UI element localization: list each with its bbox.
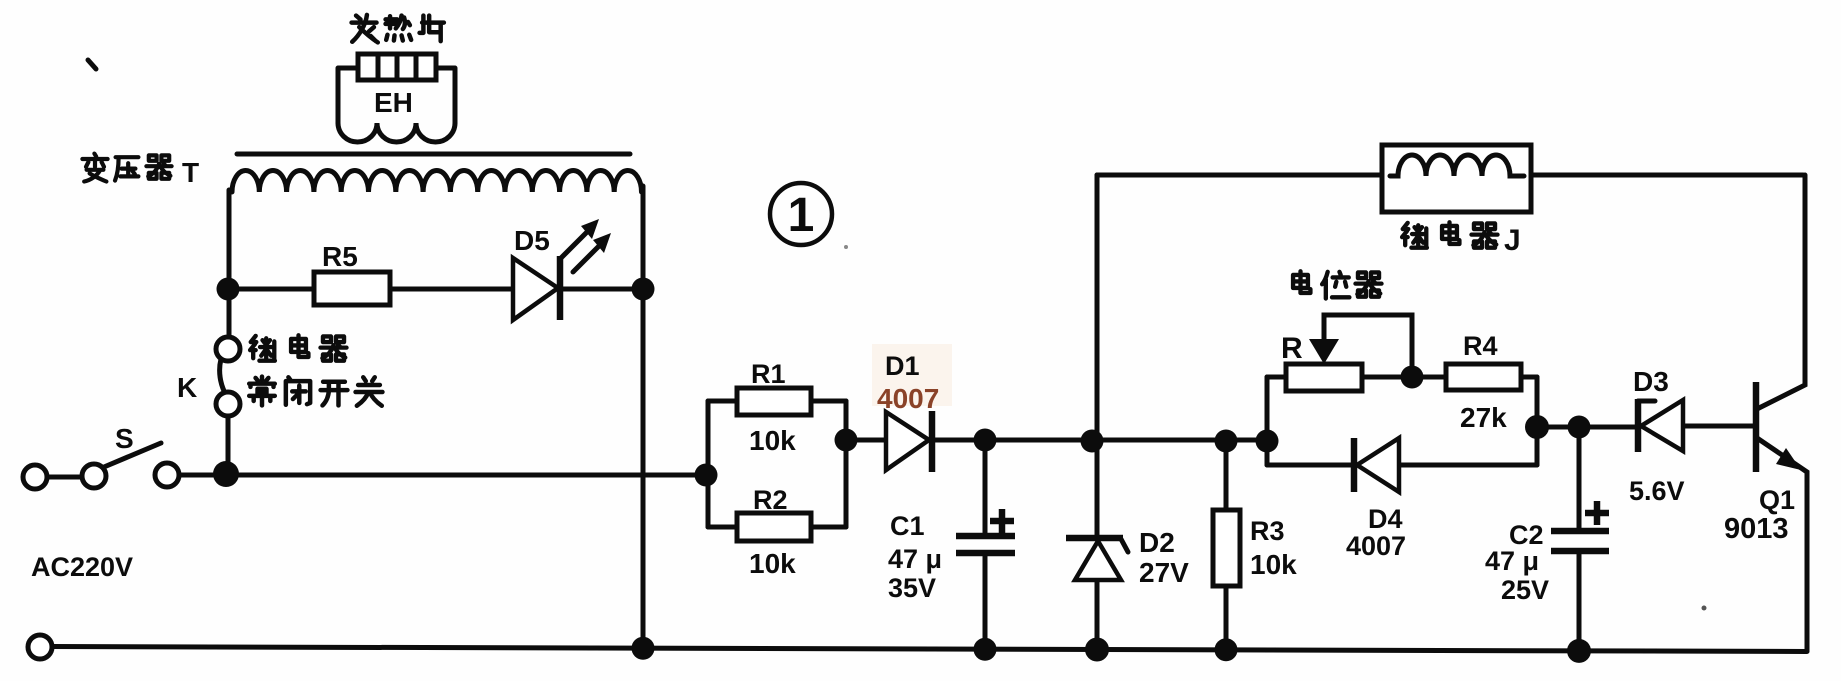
svg-text:C1: C1 [890, 511, 925, 541]
svg-text:1: 1 [788, 189, 815, 242]
svg-text:S: S [115, 423, 134, 454]
svg-text:D5: D5 [514, 225, 550, 256]
svg-text:47 μ: 47 μ [1485, 546, 1539, 576]
svg-text:R5: R5 [322, 241, 358, 272]
svg-text:EH: EH [374, 87, 413, 118]
svg-text:AC220V: AC220V [31, 552, 133, 582]
svg-text:4007: 4007 [877, 383, 939, 414]
svg-text:R4: R4 [1463, 331, 1498, 361]
svg-text:D4: D4 [1368, 504, 1403, 534]
svg-text:25V: 25V [1501, 575, 1549, 605]
svg-text:35V: 35V [888, 573, 936, 603]
svg-text:10k: 10k [749, 548, 796, 579]
svg-text:4007: 4007 [1346, 531, 1406, 561]
svg-text:D1: D1 [885, 351, 920, 381]
svg-text:R3: R3 [1250, 516, 1285, 546]
svg-text:R2: R2 [753, 485, 788, 515]
svg-text:27k: 27k [1460, 402, 1507, 433]
svg-text:D2: D2 [1139, 527, 1175, 558]
svg-text:10k: 10k [1250, 549, 1297, 580]
svg-text:K: K [177, 372, 197, 403]
svg-text:27V: 27V [1139, 557, 1189, 588]
svg-text:R1: R1 [751, 359, 786, 389]
svg-text:D3: D3 [1633, 366, 1669, 397]
svg-text:9013: 9013 [1724, 513, 1789, 545]
svg-text:R: R [1281, 332, 1303, 365]
svg-text:Q1: Q1 [1759, 485, 1795, 515]
svg-text:47 μ: 47 μ [888, 544, 942, 574]
svg-text:10k: 10k [749, 425, 796, 456]
svg-text:5.6V: 5.6V [1629, 476, 1685, 506]
svg-text:J: J [1504, 224, 1521, 257]
svg-text:T: T [182, 157, 199, 188]
